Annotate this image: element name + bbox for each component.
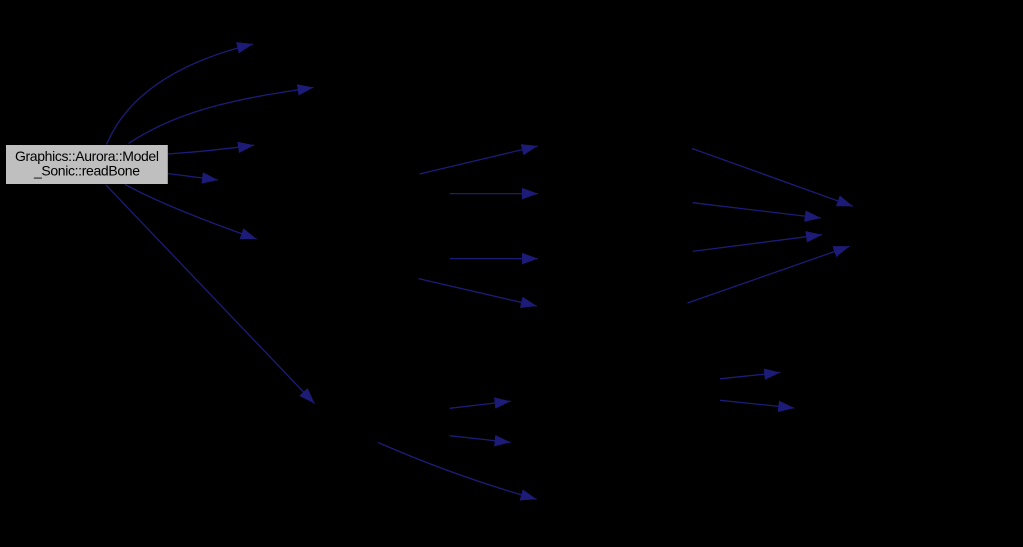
wire edge E4 (readBone -> adjacent node) <box>168 174 219 181</box>
wire edge E16 (bottom cluster lower) <box>450 436 511 443</box>
wire edge E19 (bottom right lower) <box>720 400 794 408</box>
wire edge E14 (right cluster bottom) <box>688 246 850 303</box>
wire edge E12 (right cluster second) <box>693 203 821 218</box>
wire edge E11 (right cluster top) <box>692 149 853 207</box>
svg-text:_Sonic::readBone: _Sonic::readBone <box>33 162 140 178</box>
wire edge E8 (mid node -> target, horizontal) <box>450 193 538 195</box>
wire edge E17 (bottom node -> far bottom target) <box>378 443 536 500</box>
wire edge E3 (readBone -> third node) <box>168 145 255 154</box>
wire edge E13 (right cluster third) <box>693 235 822 252</box>
node readBone (Graphics::Aurora::Model_Sonic::readBone) <box>6 145 168 184</box>
wire edge E1 (readBone -> top node, curved) <box>107 44 254 145</box>
wire edge E6 (readBone -> bottom node, long curved) <box>106 185 315 404</box>
wire edge E9 (mid node -> target, horizontal) <box>450 258 538 260</box>
wire edge E15 (bottom cluster upper) <box>450 401 511 408</box>
wire edge E2 (readBone -> second node, curved) <box>129 88 314 144</box>
wire edge E7 (mid node -> upper target) <box>419 146 537 174</box>
wire edge E5 (readBone -> fifth node) <box>125 184 257 239</box>
wire edge E10 (mid node -> lower target) <box>419 279 537 306</box>
wire edge E18 (bottom right upper) <box>720 373 780 379</box>
